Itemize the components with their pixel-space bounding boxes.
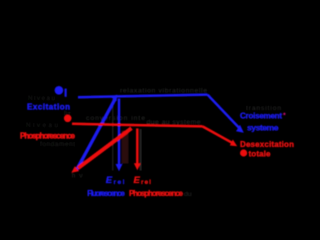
svg-text:E: E [106,175,113,186]
blue plateau S1 level [78,95,208,98]
svg-text:Croisement: Croisement [240,111,282,120]
svg-text:Niveau: Niveau [28,95,55,102]
svg-text:totale: totale [249,149,272,158]
svg-text:rel: rel [114,179,125,186]
red right label line2 round glyph [240,149,247,156]
svg-text:Fluorescence: Fluorescence [87,189,125,198]
svg-text:systeme: systeme [247,122,279,132]
svg-text:rel: rel [141,179,151,186]
svg-text:E: E [134,175,141,186]
svg-text:hν: hν [72,173,84,180]
svg-text:du: du [184,191,192,198]
red diagonal emission arrow [78,128,132,168]
svg-text:Desexcitation: Desexcitation [240,140,294,149]
svg-text:Niveau: Niveau [26,122,58,129]
svg-text:*: * [283,113,286,120]
svg-text:Phosphorescence: Phosphorescence [20,131,76,140]
blue diagonal absorption arrow [76,100,115,171]
svg-text:fondament: fondament [40,141,75,148]
red right descent arrow [203,126,233,143]
svg-text:Phosphorescence: Phosphorescence [129,189,184,198]
ghost vertical line B [122,131,129,164]
svg-text:conversion inte: conversion inte [86,115,145,122]
svg-text:relaxation vibrationnelle: relaxation vibrationnelle [120,88,207,95]
blue vertical relaxation arrow [118,99,121,165]
red hole glyph dot [64,115,72,123]
blue electron glyph e [55,86,64,95]
red plateau T1 level [72,124,203,127]
ghost vertical line A [112,99,114,171]
red vertical relaxation arrow [136,128,139,163]
blue right descent arrow [208,95,240,129]
